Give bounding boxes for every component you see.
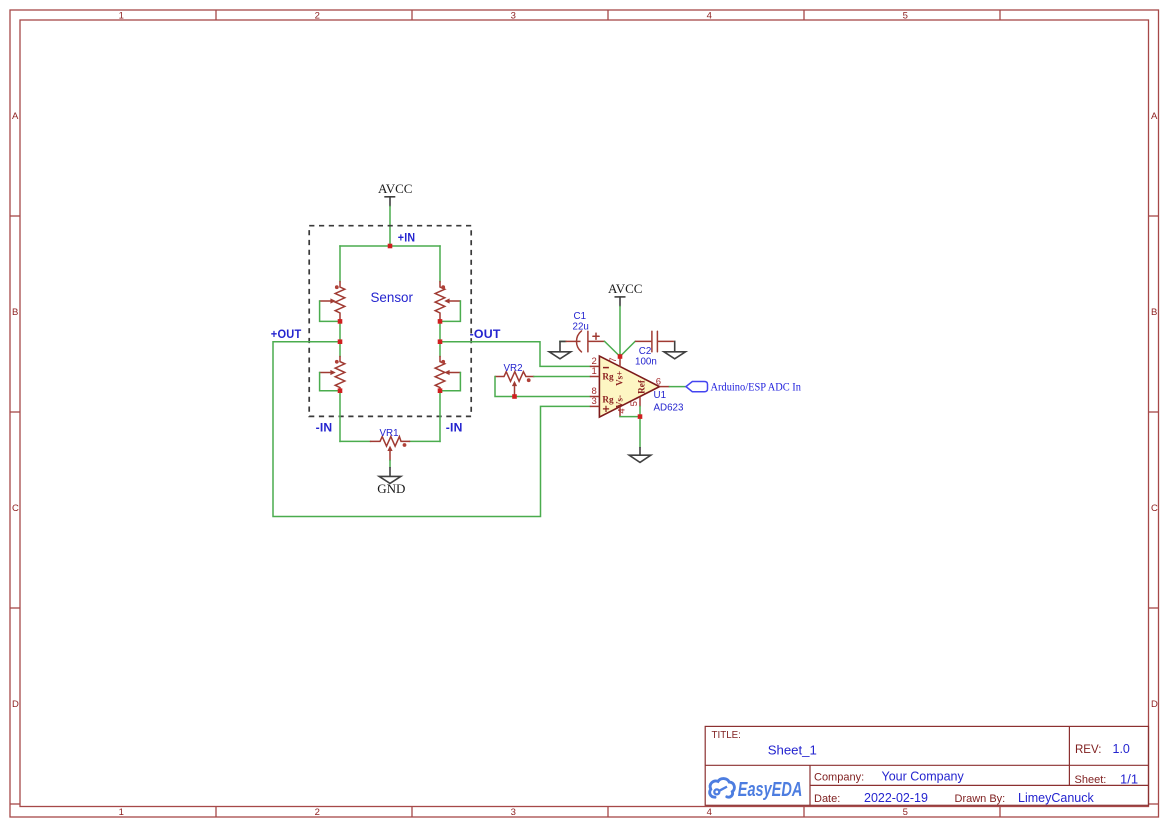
wire bottom rail left [340,440,370,442]
svg-text:Sheet_1: Sheet_1 [768,742,817,757]
wire pin4 to ref rail [620,416,640,418]
svg-text:4: 4 [617,408,628,413]
svg-text:LimeyCanuck: LimeyCanuck [1018,791,1094,805]
potentiometer VR1 [370,428,409,461]
pin 3 [590,405,600,407]
wire wiper loop bottom-right [440,373,460,391]
pin 6 [660,386,670,388]
pin 4 [619,407,621,417]
wire bottom rail right [410,440,440,442]
svg-text:GND: GND [377,481,405,496]
wire AVCC to +IN node [389,207,391,247]
svg-text:EasyEDA: EasyEDA [738,778,803,801]
svg-text:AD623: AD623 [654,403,685,414]
wire right arm lower [439,391,441,442]
net flag Arduino/ESP ADC In [686,380,801,393]
svg-text:REV:: REV: [1075,744,1101,756]
svg-text:4: 4 [707,807,712,818]
svg-text:1/1: 1/1 [1120,771,1138,786]
svg-text:Rg: Rg [602,394,614,404]
svg-text:AVCC: AVCC [608,281,642,296]
svg-text:C2: C2 [639,346,652,357]
capacitor C2 100n [620,331,674,367]
svg-text:-IN: -IN [316,423,333,435]
ground at C1 [549,341,571,358]
svg-text:Rg: Rg [602,372,614,382]
svg-text:2: 2 [315,11,320,22]
wire left arm middle [339,321,341,356]
junction ref node [638,414,643,419]
svg-text:A: A [12,111,19,122]
junction [438,319,443,324]
svg-text:3: 3 [511,11,516,22]
svg-text:-OUT: -OUT [470,329,501,341]
wire right arm upper [439,246,441,282]
wire +OUT to op-amp pin3 [273,342,590,517]
junction +IN node [388,244,393,249]
svg-text:22u: 22u [573,321,589,332]
wire pin6 to net flag [670,386,687,388]
potentiometer VR2 [495,363,534,397]
svg-text:2022-02-19: 2022-02-19 [864,791,928,805]
svg-text:7: 7 [608,357,619,362]
wire VR1 wiper to GND [389,461,391,468]
junction [338,319,343,324]
svg-text:Sheet:: Sheet: [1075,774,1107,786]
wire wiper loop bottom-left [320,373,340,391]
svg-text:Company:: Company: [814,771,864,783]
svg-text:C: C [12,503,19,514]
svg-text:+OUT: +OUT [271,329,302,341]
svg-text:3: 3 [511,807,516,818]
svg-text:Vs+: Vs+ [614,371,624,386]
svg-text:TITLE:: TITLE: [712,730,741,741]
wire right arm middle [439,321,441,356]
svg-text:B: B [12,307,18,318]
svg-text:1: 1 [119,11,124,22]
bridge resistor top-left [320,282,345,322]
svg-text:C: C [1151,503,1158,514]
svg-text:5: 5 [903,11,908,22]
pin 5 [639,397,641,407]
pin 8 [590,396,600,398]
bridge resistor top-right [435,282,460,322]
ground at op-amp [629,447,651,462]
capacitor C1 22u [560,311,605,352]
svg-text:Ref: Ref [637,379,647,394]
svg-text:1: 1 [592,366,597,377]
junction VR2 wiper [512,394,517,399]
svg-text:1.0: 1.0 [1113,742,1130,756]
wire wiper loop top-right [440,301,460,321]
svg-text:U1: U1 [654,390,667,401]
svg-text:Arduino/ESP ADC In: Arduino/ESP ADC In [711,380,802,393]
svg-text:Vs-: Vs- [614,395,624,408]
svg-text:D: D [1151,699,1158,710]
ground GND (bridge) [377,467,405,496]
svg-text:B: B [1151,307,1157,318]
wire wiper loop top-left [320,301,340,321]
op-amp U1 AD623 [590,356,684,417]
svg-text:Your Company: Your Company [882,769,965,783]
wire VR2 right to pin1 [534,376,590,378]
title block [705,726,1148,805]
svg-text:2: 2 [315,807,320,818]
svg-text:5: 5 [903,807,908,818]
svg-text:+IN: +IN [398,233,415,245]
svg-text:100n: 100n [635,357,657,368]
svg-text:3: 3 [592,396,597,407]
pin 2 [590,365,600,367]
svg-text:Date:: Date: [814,793,840,805]
svg-text:4: 4 [707,11,712,22]
EasyEDA logo [710,779,735,798]
wire left arm lower [339,391,341,442]
wire VR2 left to pin8 rail [495,377,590,397]
svg-text:-IN: -IN [446,423,463,435]
wire -OUT to op-amp pin2 [440,342,590,367]
power flag AVCC (bridge) [378,181,412,207]
bridge resistor bottom-right [435,356,460,390]
svg-text:VR1: VR1 [380,428,399,439]
svg-text:5: 5 [629,401,640,406]
wire pin5/ref down [639,407,641,448]
svg-text:6: 6 [656,376,661,387]
svg-text:VR2: VR2 [504,363,523,374]
power flag AVCC (op-amp) [608,281,642,307]
wire C1 to AVCC node (diagonal) [605,341,620,356]
wire bridge top rail [340,245,440,247]
svg-text:D: D [12,699,19,710]
sensor module dashed outline [309,226,471,417]
junction [338,388,343,393]
pin 7 [619,357,621,367]
junction +OUT node [338,339,343,344]
junction V+ node [618,354,623,359]
svg-text:Sensor: Sensor [371,290,414,305]
svg-text:A: A [1151,111,1158,122]
pin 1 [590,376,600,378]
junction [438,388,443,393]
pin name + [603,406,609,412]
svg-text:AVCC: AVCC [378,181,412,196]
svg-text:Drawn By:: Drawn By: [955,793,1006,805]
ground at C2 [664,341,686,358]
wire left arm upper [339,246,341,282]
pin name - [603,367,609,369]
junction -OUT node [438,339,443,344]
wire AVCC to op-amp V+ node [619,307,621,357]
svg-text:1: 1 [119,807,124,818]
bridge resistor bottom-left [320,356,345,390]
